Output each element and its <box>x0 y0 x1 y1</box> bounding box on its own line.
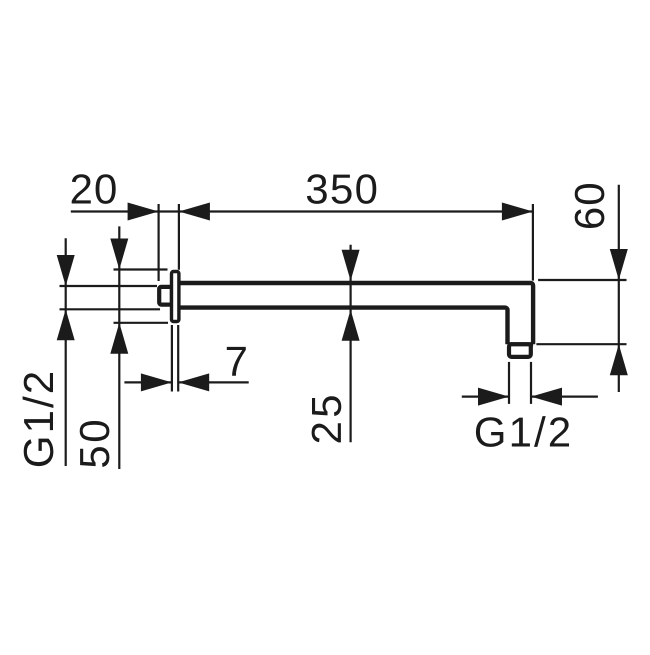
extension line x=158.6 <box>158 204 160 281</box>
arrow 60 bottom (points up) <box>610 344 628 375</box>
bottom thread nub G1/2 <box>509 344 531 357</box>
extension line x=531 <box>530 362 532 404</box>
label 60 (rotated) <box>575 184 605 228</box>
dimension line G1/2 left vertical <box>65 238 67 466</box>
label G1/2 bottom <box>476 416 569 447</box>
extension line elbow bottom right <box>536 343 626 345</box>
label 20 <box>72 174 116 204</box>
arrow G1/2 left bottom (points up) <box>57 309 75 340</box>
dimension line 7 right segment <box>178 381 249 383</box>
arrow G1/2 bottom left (points right) <box>478 388 509 406</box>
arm tube bottom edge <box>178 308 508 345</box>
dimension line 60 vertical <box>618 185 620 392</box>
dimension line G1/2 bottom left segment <box>462 396 509 398</box>
arrow 50 top (points down) <box>110 239 128 270</box>
label G1/2 left (rotated) <box>23 373 54 466</box>
arrow 60 top (points down) <box>610 249 628 280</box>
dimension line top (20 / 350) <box>71 210 533 212</box>
arrow G1/2 bottom right (points left) <box>531 388 562 406</box>
extension line x=171.9 <box>171 325 173 392</box>
label 25 (rotated) <box>312 396 342 442</box>
arrow 350 right (points right) <box>502 203 533 221</box>
extension line x=532.9 <box>532 204 534 281</box>
label 7 <box>227 347 246 376</box>
extension line nub bottom <box>60 308 161 310</box>
arrow 7 right (points left) <box>178 373 209 391</box>
dimension line 50 vertical <box>118 226 120 469</box>
arrow 7 left (points right) <box>141 373 172 391</box>
extension line flange bottom <box>114 322 169 324</box>
arm tube top edge <box>178 283 533 344</box>
wall flange plate <box>172 272 179 322</box>
dimension line 7 left segment <box>124 381 171 383</box>
arrow 25 bottom (points up) <box>342 310 360 341</box>
dimension line G1/2 bottom right segment <box>531 396 598 398</box>
arrow 20 left (points right) <box>128 203 159 221</box>
arrow 25 top (points down) <box>342 250 360 281</box>
elbow shoulder <box>508 342 534 346</box>
extension line flange top <box>114 268 168 270</box>
arrow 350 left (points left) <box>179 203 210 221</box>
extension line arm top right <box>538 279 626 281</box>
extension line x=178.9 <box>178 204 180 270</box>
extension line nub top <box>60 285 158 287</box>
extension line x=509 <box>508 362 510 404</box>
label 350 <box>307 174 376 204</box>
extension line x=178.2 <box>177 325 179 392</box>
arrow G1/2 left top (points down) <box>57 255 75 286</box>
label 50 (rotated) <box>80 421 110 467</box>
wall thread nub G1/2 <box>159 287 172 305</box>
arrow 50 bottom (points up) <box>110 323 128 354</box>
dimension line 25 vertical <box>350 245 352 442</box>
